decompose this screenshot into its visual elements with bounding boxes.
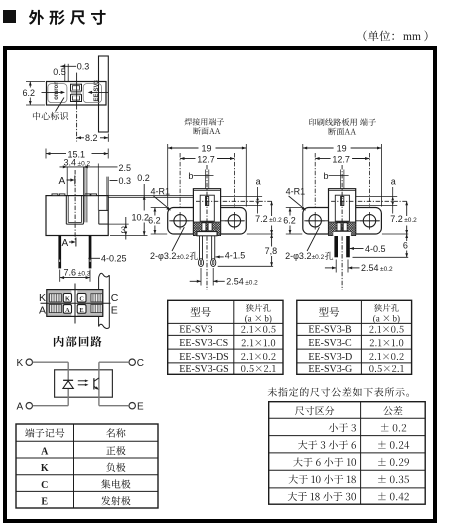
svg-text:7.6: 7.6 xyxy=(64,267,77,277)
svg-text:C: C xyxy=(41,480,48,491)
svg-text:A: A xyxy=(62,238,69,249)
svg-text:E: E xyxy=(80,307,84,314)
svg-text:6.2: 6.2 xyxy=(283,216,296,226)
svg-text:b: b xyxy=(188,171,193,181)
svg-text:EE-SV3-B: EE-SV3-B xyxy=(308,325,352,336)
svg-text:12.7: 12.7 xyxy=(332,154,350,164)
svg-text:±0.2: ±0.2 xyxy=(404,217,417,224)
svg-text:K: K xyxy=(17,358,24,369)
svg-text:omron: omron xyxy=(54,81,60,100)
svg-text:7.2: 7.2 xyxy=(255,214,268,224)
svg-text:(a: (a xyxy=(373,314,380,324)
svg-text:2-φ3.2: 2-φ3.2 xyxy=(150,251,176,261)
svg-text:±0.2: ±0.2 xyxy=(78,160,91,167)
svg-text:K: K xyxy=(41,463,49,474)
svg-text:A: A xyxy=(59,176,66,187)
svg-text:±0.2: ±0.2 xyxy=(312,254,325,261)
svg-text:EE-SV3: EE-SV3 xyxy=(179,325,212,336)
svg-text:0.5: 0.5 xyxy=(53,67,66,77)
svg-text:EE-SV3-D: EE-SV3-D xyxy=(308,352,352,363)
svg-text:C: C xyxy=(79,296,83,303)
svg-text:a: a xyxy=(391,177,396,187)
svg-text:a: a xyxy=(256,177,261,187)
svg-text:A: A xyxy=(39,305,46,317)
svg-text:8.2: 8.2 xyxy=(85,133,98,143)
svg-text:b: b xyxy=(324,171,329,181)
svg-text:19: 19 xyxy=(201,144,211,154)
svg-text:A: A xyxy=(65,307,70,314)
svg-text:4-R1: 4-R1 xyxy=(151,187,171,197)
svg-text:2.54: 2.54 xyxy=(361,263,379,273)
svg-text:(a: (a xyxy=(245,314,252,324)
svg-text:EE-SV3-GS: EE-SV3-GS xyxy=(179,364,228,375)
svg-text:±0.2: ±0.2 xyxy=(245,280,258,287)
svg-text:3.4: 3.4 xyxy=(64,157,77,167)
svg-text:mm: mm xyxy=(403,31,421,43)
svg-text:2-φ3.2: 2-φ3.2 xyxy=(285,251,311,261)
svg-text:6.2: 6.2 xyxy=(23,88,36,98)
svg-text:2.5: 2.5 xyxy=(119,163,132,173)
svg-text:0.2: 0.2 xyxy=(137,173,150,183)
svg-text:EE-SV3-CS: EE-SV3-CS xyxy=(179,338,228,349)
svg-text:0.3: 0.3 xyxy=(77,62,90,72)
svg-text:±0.2: ±0.2 xyxy=(380,266,393,273)
svg-text:12.7: 12.7 xyxy=(197,154,215,164)
svg-text:E: E xyxy=(111,305,118,317)
svg-text:EE-SV3-DS: EE-SV3-DS xyxy=(179,352,228,363)
svg-text:±0.2: ±0.2 xyxy=(177,254,190,261)
svg-text:4-0.5: 4-0.5 xyxy=(365,244,386,254)
svg-text:EE-SV3-G: EE-SV3-G xyxy=(308,364,352,375)
svg-text:A: A xyxy=(41,446,49,457)
svg-text:K: K xyxy=(39,292,46,304)
svg-text:0.3: 0.3 xyxy=(119,176,132,186)
svg-text:2.54: 2.54 xyxy=(226,277,244,287)
svg-text:±0.2: ±0.2 xyxy=(269,217,282,224)
svg-text:A: A xyxy=(17,402,24,413)
svg-text:4-R1: 4-R1 xyxy=(286,187,306,197)
svg-text:C: C xyxy=(137,358,144,369)
svg-text:±0.3: ±0.3 xyxy=(78,270,91,277)
svg-text:6: 6 xyxy=(403,240,408,250)
svg-text:b): b) xyxy=(264,314,272,324)
svg-text:EE-SV3-C: EE-SV3-C xyxy=(308,338,352,349)
svg-text:7.2: 7.2 xyxy=(390,214,403,224)
svg-text:6.2: 6.2 xyxy=(148,216,161,226)
svg-text:19: 19 xyxy=(337,144,347,154)
svg-text:4-0.25: 4-0.25 xyxy=(101,254,127,264)
svg-text:K: K xyxy=(65,296,70,303)
svg-text:b): b) xyxy=(393,314,401,324)
svg-text:10.2: 10.2 xyxy=(132,212,150,222)
svg-text:E: E xyxy=(41,497,48,508)
svg-text:EE-SV3: EE-SV3 xyxy=(94,79,100,101)
svg-text:7,8: 7,8 xyxy=(265,246,278,256)
svg-text:3: 3 xyxy=(121,225,126,235)
svg-text:4-1.5: 4-1.5 xyxy=(225,251,246,261)
svg-text:E: E xyxy=(137,402,144,413)
svg-text:C: C xyxy=(111,292,119,304)
